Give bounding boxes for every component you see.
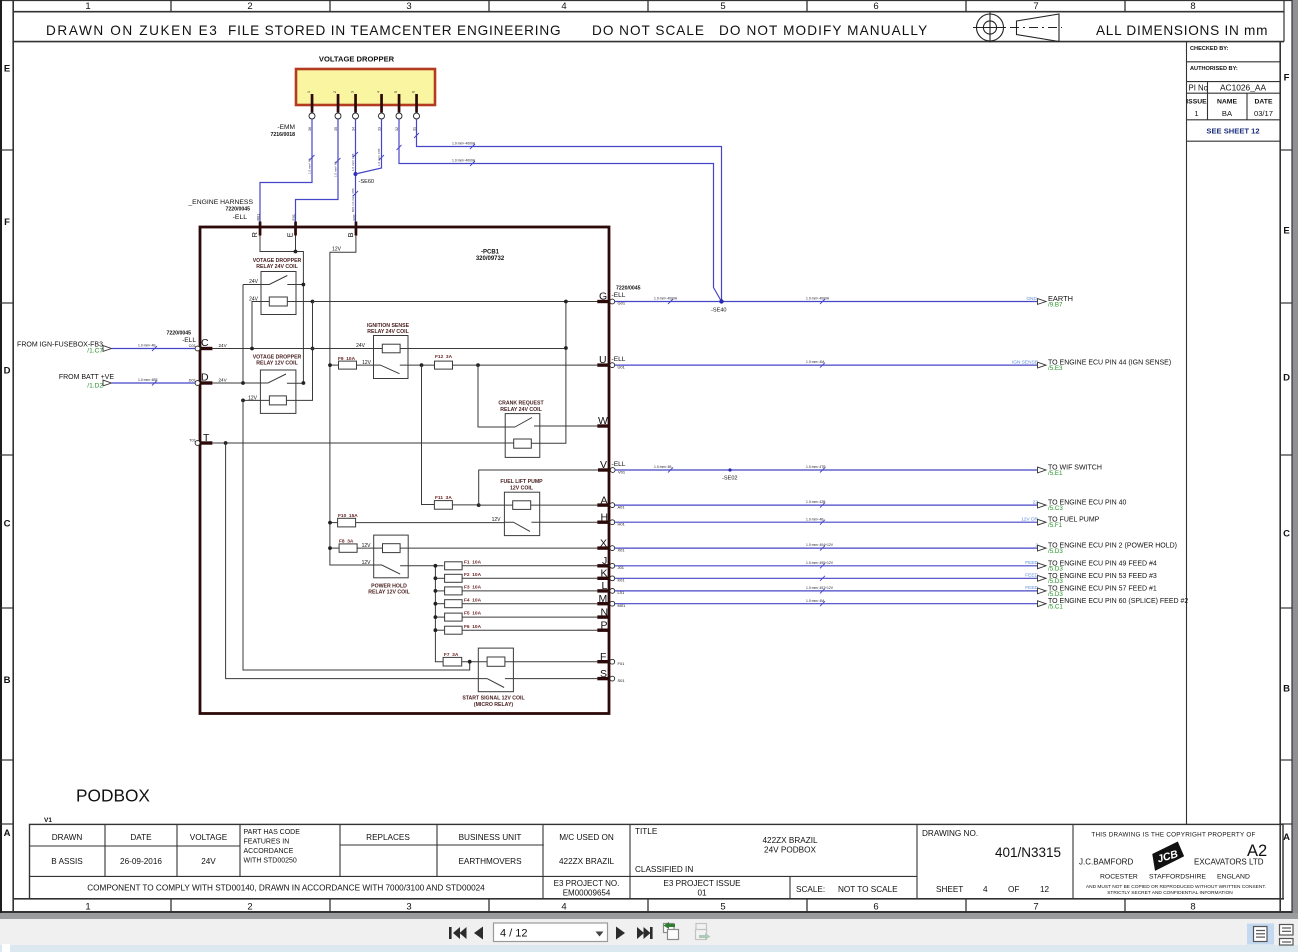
E3 project issue cell xyxy=(663,879,741,898)
column numbers bottom xyxy=(85,902,1195,913)
wire G to earth xyxy=(615,299,1038,304)
wire from IGN fusebox to C xyxy=(112,346,196,351)
svg-text:-EMM: -EMM xyxy=(277,124,295,131)
fuse F6 and P line xyxy=(435,624,597,634)
svg-text:03/17: 03/17 xyxy=(1254,109,1273,118)
fuse F5 and N line xyxy=(435,611,597,621)
svg-text:CRANK REQUEST: CRANK REQUEST xyxy=(498,401,544,407)
off-page arrow H xyxy=(1038,519,1047,525)
harness label at C xyxy=(166,331,196,345)
svg-text:START SIGNAL 12V COIL: START SIGNAL 12V COIL xyxy=(462,696,525,702)
fuse F7 xyxy=(443,652,487,666)
node U line after F12 xyxy=(476,363,480,367)
svg-text:3: 3 xyxy=(406,1,411,12)
relay K6 coil xyxy=(383,544,401,553)
svg-text:SHEET: SHEET xyxy=(936,885,963,894)
wire T tap down to start relay switch xyxy=(226,443,488,679)
wire K to ECU pin 53 xyxy=(615,576,1038,581)
svg-text:1.0 mm² 4M: 1.0 mm² 4M xyxy=(806,599,824,603)
relay K6 box power hold xyxy=(374,535,409,578)
wire pin5 to splice SE40 xyxy=(397,119,722,302)
connector X right edge xyxy=(597,538,625,553)
node bus at K row xyxy=(434,576,438,580)
voltage dropper pin 3 xyxy=(351,91,359,131)
svg-text:R: R xyxy=(250,232,259,238)
connector K right edge xyxy=(597,568,625,583)
svg-text:3: 3 xyxy=(406,902,411,913)
connector F right edge xyxy=(597,651,625,666)
fuse F4 and M line xyxy=(435,597,597,607)
svg-text:ISSUE: ISSUE xyxy=(1186,99,1207,106)
svg-text:NOT TO SCALE: NOT TO SCALE xyxy=(838,885,898,894)
svg-text:FROM BATT +VE: FROM BATT +VE xyxy=(59,374,114,381)
continuous view toggle xyxy=(1280,925,1294,946)
wire F12 tap down to fuse F11 xyxy=(422,365,435,504)
svg-text:REPLACES: REPLACES xyxy=(366,833,410,842)
off-page arrow L xyxy=(1038,588,1047,594)
voltage dropper pin 1 xyxy=(307,91,315,131)
node 12V bus at F8 xyxy=(328,546,332,550)
svg-text:-ELL: -ELL xyxy=(612,292,626,299)
connector L right edge xyxy=(597,580,625,595)
svg-text:FUEL LIFT PUMP: FUEL LIFT PUMP xyxy=(500,479,543,485)
svg-text:FEED: FEED xyxy=(1025,585,1038,591)
svg-text:ENGLAND: ENGLAND xyxy=(1217,874,1250,881)
right border row tick dividers xyxy=(1280,150,1292,824)
wire left vertical to bottom link xyxy=(243,400,470,670)
svg-text:1.0 mm² 4B: 1.0 mm² 4B xyxy=(308,158,312,174)
connector S right edge xyxy=(597,668,625,683)
svg-text:A: A xyxy=(1283,832,1290,843)
wire G line tap down to C line and relay K2 coil xyxy=(286,302,312,401)
svg-text:/5.D3: /5.D3 xyxy=(1048,591,1063,598)
bottom column tick dividers xyxy=(171,899,1125,912)
svg-text:4: 4 xyxy=(377,91,381,93)
connector D left edge xyxy=(189,372,213,386)
svg-text:TO ENGINE ECU PIN 53 FEED #3: TO ENGINE ECU PIN 53 FEED #3 xyxy=(1048,573,1157,580)
viewer bottom blue strip xyxy=(0,945,1298,952)
svg-text:DRAWING NO.: DRAWING NO. xyxy=(922,829,978,838)
svg-text:V1: V1 xyxy=(44,817,52,824)
svg-text:1.0 mm² 4B: 1.0 mm² 4B xyxy=(654,465,672,469)
svg-text:1.0 mm² 4TB: 1.0 mm² 4TB xyxy=(806,465,826,469)
svg-text:/5.E3: /5.E3 xyxy=(1048,365,1063,372)
sheet bottom line xyxy=(2,911,1292,913)
splice node -SE40 xyxy=(719,299,723,303)
node C line end xyxy=(564,346,568,350)
svg-text:6: 6 xyxy=(412,91,416,93)
node C line tap xyxy=(311,347,315,351)
svg-text:3: 3 xyxy=(351,91,355,93)
svg-text:RELAY 24V COIL: RELAY 24V COIL xyxy=(367,329,409,335)
relay K7 label start signal xyxy=(462,696,525,709)
svg-text:12V: 12V xyxy=(362,560,372,566)
svg-text:12V: 12V xyxy=(362,543,372,549)
svg-text:1.0 mm² 457+12V: 1.0 mm² 457+12V xyxy=(806,586,834,590)
splice node -SE60 xyxy=(354,172,358,176)
svg-text:4: 4 xyxy=(983,885,988,894)
relay K4 label crank request xyxy=(498,401,544,414)
svg-text:24V PODBOX: 24V PODBOX xyxy=(764,846,816,855)
scale cell xyxy=(796,885,898,894)
svg-text:E3 PROJECT ISSUE: E3 PROJECT ISSUE xyxy=(663,879,741,888)
svg-text:_ENGINE HARNESS: _ENGINE HARNESS xyxy=(187,199,253,206)
svg-text:01: 01 xyxy=(697,889,707,898)
svg-text:1.0 mm² 42B: 1.0 mm² 42B xyxy=(806,500,826,504)
relay K4 box xyxy=(505,414,540,458)
wire X to ECU pin 2 xyxy=(615,546,1038,551)
svg-text:(MICRO RELAY): (MICRO RELAY) xyxy=(474,702,514,708)
svg-text:1: 1 xyxy=(1194,109,1198,118)
A line through fuel pump coil xyxy=(479,504,598,506)
wire A junction up to V line xyxy=(479,470,598,505)
node C line relay K1 coil tap xyxy=(250,347,254,351)
svg-text:-SE60: -SE60 xyxy=(359,179,375,185)
svg-text:1.0 mm² 4000A: 1.0 mm² 4000A xyxy=(806,297,830,301)
wire H to fuel pump xyxy=(615,520,1038,525)
svg-text:-ELL: -ELL xyxy=(233,214,248,221)
svg-text:5: 5 xyxy=(394,91,398,93)
svg-text:COMPONENT TO COMPLY WITH STD00: COMPONENT TO COMPLY WITH STD00140, DRAWN… xyxy=(87,884,485,893)
svg-text:FEED: FEED xyxy=(1025,573,1038,579)
component label -EMM xyxy=(270,124,295,138)
svg-text:/1.C7: /1.C7 xyxy=(87,348,103,355)
svg-text:F: F xyxy=(1284,73,1290,84)
svg-text:7220/0045: 7220/0045 xyxy=(616,286,641,292)
svg-text:AC1026_AA: AC1026_AA xyxy=(1220,83,1267,93)
splice node -SE02 xyxy=(728,468,731,471)
svg-text:F1 10A: F1 10A xyxy=(464,559,482,565)
connector M right edge xyxy=(597,593,626,608)
relay K1 box xyxy=(261,272,296,315)
node F line junction xyxy=(468,660,472,664)
U line from switch to connector U xyxy=(422,364,598,366)
next page button xyxy=(616,927,625,940)
previous page button xyxy=(474,927,483,940)
wire pin3 to connector B with splice xyxy=(353,119,358,222)
wire relay K1 switch to D line xyxy=(242,285,244,384)
column numbers top xyxy=(85,1,1195,12)
svg-text:FILE STORED IN TEAMCENTER ENGI: FILE STORED IN TEAMCENTER ENGINEERING xyxy=(228,23,561,38)
svg-text:STRICTLY SECRET AND CONFIDENTI: STRICTLY SECRET AND CONFIDENTIAL INFORMA… xyxy=(1107,890,1233,896)
svg-text:TO ENGINE ECU PIN 2 (POWER HOL: TO ENGINE ECU PIN 2 (POWER HOLD) xyxy=(1048,543,1177,550)
svg-text:2: 2 xyxy=(247,902,252,913)
svg-text:ROCESTER: ROCESTER xyxy=(1100,874,1138,881)
svg-text:THIS DRAWING IS THE COPYRIGHT: THIS DRAWING IS THE COPYRIGHT PROPERTY O… xyxy=(1091,832,1255,839)
relay K1 label voltage dropper 24V coil xyxy=(253,258,302,270)
svg-text:401/N3315: 401/N3315 xyxy=(995,845,1061,860)
svg-text:R01: R01 xyxy=(257,214,261,221)
svg-text:EXCAVATORS LTD: EXCAVATORS LTD xyxy=(1194,858,1264,867)
svg-text:B01: B01 xyxy=(353,214,357,220)
svg-text:422ZX BRAZIL: 422ZX BRAZIL xyxy=(559,857,615,866)
left border row tick dividers xyxy=(0,150,13,824)
svg-text:F5 10A: F5 10A xyxy=(464,611,482,617)
connector J right edge xyxy=(597,555,624,570)
svg-text:DRAWN: DRAWN xyxy=(52,833,83,842)
wire L to ECU pin 57 xyxy=(615,588,1038,593)
svg-text:B: B xyxy=(346,232,355,237)
node bus at N row xyxy=(434,615,438,619)
svg-text:4: 4 xyxy=(561,902,566,913)
svg-text:SCALE:: SCALE: xyxy=(796,885,825,894)
off-page arrow X xyxy=(1038,545,1047,551)
wire relay K1 coil left to C line xyxy=(252,302,269,349)
PCB1 board outline xyxy=(200,227,609,714)
svg-text:E: E xyxy=(1283,226,1289,237)
svg-text:1.0 mm² 4B: 1.0 mm² 4B xyxy=(138,344,156,348)
relay K3 box xyxy=(374,336,409,379)
relay K3 switch xyxy=(374,365,422,374)
svg-text:7220/0045: 7220/0045 xyxy=(225,207,250,213)
T line inside board xyxy=(212,442,513,444)
external label FROM BATT +VE xyxy=(59,374,114,390)
svg-text:/1.D2: /1.D2 xyxy=(87,383,103,390)
svg-text:12V: 12V xyxy=(332,247,342,253)
svg-text:/5.F1: /5.F1 xyxy=(1048,522,1063,529)
top column tick dividers xyxy=(171,0,1125,12)
voltage dropper pin 5 xyxy=(394,91,402,131)
relay K7 box start signal micro relay xyxy=(478,648,513,692)
engine harness label xyxy=(187,199,253,221)
svg-text:A: A xyxy=(4,828,11,839)
off-page arrow earth xyxy=(1038,299,1047,305)
harness label at U xyxy=(612,356,626,369)
connector pin B top edge xyxy=(346,214,357,237)
fuse bank feed bus xyxy=(435,566,443,662)
svg-text:FEED: FEED xyxy=(1025,560,1038,566)
relay K3 label ignition sense xyxy=(367,323,410,335)
svg-text:-ELL: -ELL xyxy=(182,337,196,344)
fuse F8 on X feed xyxy=(330,539,383,553)
svg-text:AUTHORISED BY:: AUTHORISED BY: xyxy=(1190,66,1238,72)
svg-text:DO NOT SCALE: DO NOT SCALE xyxy=(592,23,705,38)
connector pin R top edge xyxy=(250,214,261,238)
svg-text:M/C USED ON: M/C USED ON xyxy=(559,833,614,842)
wire R/E junction feed xyxy=(260,236,303,384)
svg-text:1.0 mm² 4000A: 1.0 mm² 4000A xyxy=(452,142,476,146)
svg-text:1: 1 xyxy=(307,91,311,93)
svg-text:7: 7 xyxy=(1033,902,1038,913)
connector U right edge xyxy=(597,354,614,368)
connector G right edge xyxy=(597,291,614,304)
svg-text:E3 PROJECT NO.: E3 PROJECT NO. xyxy=(554,879,620,888)
svg-text:4 / 12: 4 / 12 xyxy=(500,928,528,940)
svg-text:E: E xyxy=(4,64,10,75)
off-page arrow K xyxy=(1038,575,1047,581)
node D line relay K1 switch tap xyxy=(241,381,245,385)
svg-text:DRAWN ON ZUKEN E3: DRAWN ON ZUKEN E3 xyxy=(46,23,218,38)
relay K6 switch xyxy=(374,565,444,574)
svg-text:1.0 mm² 4000A: 1.0 mm² 4000A xyxy=(452,159,476,163)
svg-text:6: 6 xyxy=(873,902,878,913)
svg-text:D01: D01 xyxy=(189,378,197,383)
svg-text:DATE: DATE xyxy=(130,833,152,842)
svg-text:F3 10A: F3 10A xyxy=(464,585,482,591)
node R/E join xyxy=(294,250,298,254)
svg-text:B01 1.0 mm² 4TB: B01 1.0 mm² 4TB xyxy=(351,188,355,212)
svg-text:EARTHMOVERS: EARTHMOVERS xyxy=(458,857,522,866)
fuse F1 and J line xyxy=(445,559,598,569)
wire A to ECU pin 40 xyxy=(615,503,1038,508)
svg-text:E01: E01 xyxy=(292,214,296,220)
svg-text:F12 3A: F12 3A xyxy=(435,354,453,360)
relay K7 switch xyxy=(487,679,597,688)
title block value texts xyxy=(51,857,614,866)
wire from BATT to D xyxy=(112,381,196,386)
svg-text:8: 8 xyxy=(1190,1,1195,12)
relay K1 coil xyxy=(269,297,287,306)
inner border right vertical xyxy=(1279,42,1281,913)
svg-text:12V COIL: 12V COIL xyxy=(510,486,534,492)
svg-text:-ELL: -ELL xyxy=(612,356,626,363)
wire J to ECU pin 49 xyxy=(615,563,1038,568)
relay K2 label voltage dropper 12V coil xyxy=(253,355,302,367)
connector H right edge xyxy=(597,512,625,527)
svg-text:IGN SENSE: IGN SENSE xyxy=(1012,359,1038,365)
connector N right edge xyxy=(597,606,609,618)
wire M to ECU pin 60 xyxy=(615,601,1038,606)
off-page arrow A xyxy=(1038,502,1047,508)
relay K2 switch xyxy=(268,374,304,383)
svg-text:24V: 24V xyxy=(219,343,228,348)
wire pin2 to connector E xyxy=(296,119,341,222)
svg-text:D: D xyxy=(1283,373,1290,384)
relay K6 label power hold xyxy=(368,584,410,596)
page number dropdown xyxy=(494,923,608,942)
svg-text:PI No: PI No xyxy=(1189,84,1209,93)
row letters right border xyxy=(1283,73,1290,844)
svg-text:1.0 mm² 4B: 1.0 mm² 4B xyxy=(334,161,338,177)
node U line fuse F12 tap xyxy=(420,363,424,367)
svg-text:WITH STD00250: WITH STD00250 xyxy=(244,858,297,865)
svg-text:24V: 24V xyxy=(249,279,259,285)
top header strip texts xyxy=(46,23,1268,38)
svg-text:B: B xyxy=(1283,684,1290,695)
svg-text:ACCORDANCE: ACCORDANCE xyxy=(244,848,294,855)
svg-text:SEE SHEET 12: SEE SHEET 12 xyxy=(1206,127,1259,136)
svg-text:RELAY 12V COIL: RELAY 12V COIL xyxy=(256,361,298,367)
connector W right edge xyxy=(597,415,609,428)
svg-text:1.0 mm² 4TB: 1.0 mm² 4TB xyxy=(377,149,381,166)
connector T left edge xyxy=(189,432,212,445)
relay K5 switch xyxy=(504,522,597,531)
svg-text:DO NOT MODIFY MANUALLY: DO NOT MODIFY MANUALLY xyxy=(719,23,928,38)
board label -PCB1 xyxy=(476,250,505,263)
E3 project no cell xyxy=(554,879,620,898)
svg-text:1.0 mm² 4M: 1.0 mm² 4M xyxy=(806,360,824,364)
G line inside board xyxy=(313,301,610,303)
wire pin6 to splice SE40 xyxy=(414,119,722,302)
copyright cell xyxy=(1079,832,1267,897)
wire V to WIF switch xyxy=(615,468,1037,473)
svg-text:RELAY 24V COIL: RELAY 24V COIL xyxy=(256,264,298,270)
C line inside board xyxy=(212,348,566,350)
header strip bottom line xyxy=(13,41,1284,43)
svg-text:/5.C3: /5.C3 xyxy=(1048,505,1063,512)
svg-text:OF: OF xyxy=(1008,885,1019,894)
third-angle projection symbol cone xyxy=(1010,14,1062,42)
svg-text:/5.D3: /5.D3 xyxy=(1048,566,1063,573)
svg-text:5: 5 xyxy=(720,902,725,913)
fuse F10 on H line xyxy=(330,513,504,527)
column number strip top, bottom lines xyxy=(13,11,1284,13)
svg-text:TO ENGINE ECU PIN 44 (IGN SENS: TO ENGINE ECU PIN 44 (IGN SENSE) xyxy=(1048,360,1171,367)
svg-text:/5.D3: /5.D3 xyxy=(1048,578,1063,585)
relay K4 switch xyxy=(515,418,597,428)
wire relay K4 coil right up to G line xyxy=(531,302,566,444)
relay K4 coil xyxy=(514,439,532,448)
relay K5 label fuel lift pump xyxy=(500,479,543,492)
node bus at M row xyxy=(434,602,438,606)
node T line tap xyxy=(224,441,228,445)
svg-text:STAFFORDSHIRE: STAFFORDSHIRE xyxy=(1149,874,1206,881)
sheet outer top line xyxy=(2,0,1292,2)
svg-text:12V DR: 12V DR xyxy=(1021,517,1038,523)
svg-text:1.0 mm² 404+12V: 1.0 mm² 404+12V xyxy=(806,543,834,547)
voltage dropper module VD1 xyxy=(296,69,435,105)
node bus at P row xyxy=(434,628,438,632)
external label FROM IGN-FUSEBOX-FB3 xyxy=(17,342,103,355)
svg-text:GND: GND xyxy=(1026,296,1037,302)
next view icon (disabled) xyxy=(696,924,711,941)
svg-text:DATE: DATE xyxy=(1255,99,1273,106)
wire 12V bus from connector B xyxy=(330,236,374,566)
previous view icon (enabled) xyxy=(664,922,679,940)
last page button xyxy=(637,927,653,939)
node 12V bus at F10 xyxy=(328,521,332,525)
JCB logo xyxy=(1149,841,1186,871)
single page view toggle (active) xyxy=(1247,924,1274,945)
svg-text:/5.D3: /5.D3 xyxy=(1048,548,1063,555)
svg-text:B ASSIS: B ASSIS xyxy=(51,857,83,866)
svg-text:PODBOX: PODBOX xyxy=(76,786,150,806)
svg-text:S01: S01 xyxy=(618,678,626,683)
node relay K2 coil left on vertical xyxy=(241,399,245,403)
svg-text:7: 7 xyxy=(1033,1,1038,12)
relay K5 box xyxy=(504,492,539,535)
svg-text:BUSINESS UNIT: BUSINESS UNIT xyxy=(459,833,522,842)
fuse F12 xyxy=(435,354,453,369)
svg-text:C: C xyxy=(4,519,11,530)
svg-text:VOLTAGE: VOLTAGE xyxy=(190,833,228,842)
wire relay K2 coil left xyxy=(243,399,269,401)
svg-text:-ELL: -ELL xyxy=(612,461,626,468)
svg-text:J.C.BAMFORD: J.C.BAMFORD xyxy=(1079,858,1133,867)
sheet cell xyxy=(936,885,1050,894)
svg-text:1.0 mm² 490+12V: 1.0 mm² 490+12V xyxy=(806,561,834,565)
relay K2 coil xyxy=(269,396,286,405)
node A line junction xyxy=(477,503,481,507)
svg-text:TO ENGINE ECU PIN 57 FEED #1: TO ENGINE ECU PIN 57 FEED #1 xyxy=(1048,585,1157,592)
svg-text:2: 2 xyxy=(247,1,252,12)
svg-text:VOLTAGE DROPPER: VOLTAGE DROPPER xyxy=(319,55,395,64)
svg-text:RELAY 24V COIL: RELAY 24V COIL xyxy=(500,407,542,413)
off-page arrow U xyxy=(1038,362,1047,368)
fuse F2 and K line xyxy=(435,572,597,582)
svg-text:12V: 12V xyxy=(248,395,258,401)
svg-text:F: F xyxy=(4,217,10,228)
node D line vertical join xyxy=(302,381,306,385)
title cell xyxy=(635,827,818,874)
svg-text:24V: 24V xyxy=(249,297,259,303)
wire pin4 joining splice SE60 xyxy=(356,119,385,174)
svg-text:TO ENGINE ECU PIN 49 FEED #4: TO ENGINE ECU PIN 49 FEED #4 xyxy=(1048,560,1157,567)
svg-text:7216/0018: 7216/0018 xyxy=(270,132,295,138)
svg-text:BA: BA xyxy=(1222,109,1233,118)
connector P right edge xyxy=(597,620,609,632)
node relay K1 switch output xyxy=(302,283,306,287)
